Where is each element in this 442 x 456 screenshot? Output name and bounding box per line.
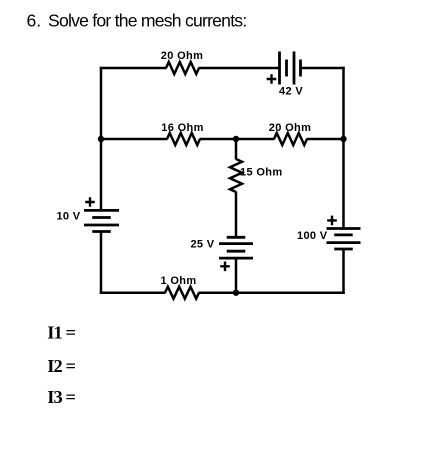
resistor 16 Ohm <box>167 133 200 145</box>
svg-text:25 V: 25 V <box>190 239 214 251</box>
wire center branch upper lead <box>235 139 238 160</box>
wire bottom-right horizontal <box>236 291 345 294</box>
node junction dot right-middle <box>340 136 346 142</box>
wire bottom-middle horizontal <box>199 291 237 294</box>
wire right rail middle <box>342 139 345 229</box>
svg-text:10 V: 10 V <box>56 211 80 223</box>
node junction dot center-middle <box>233 136 239 142</box>
node junction dot left-middle <box>98 136 104 142</box>
resistor 20 Ohm top <box>166 62 199 74</box>
wire middle-left horizontal <box>101 138 168 141</box>
plus sign of 10V battery <box>85 197 95 207</box>
node junction dot bottom <box>233 290 239 296</box>
battery V1 42V <box>280 52 301 85</box>
resistor 15 Ohm <box>230 159 242 192</box>
wire right rail lower <box>342 249 345 294</box>
wire center branch lower lead <box>235 258 238 293</box>
wire middle-right horizontal <box>307 138 344 141</box>
battery V2 10V <box>84 210 119 231</box>
battery V4 100V <box>327 229 361 250</box>
battery V3 25V <box>219 237 253 258</box>
plus sign of 42V battery <box>267 74 277 84</box>
svg-text:I1 =: I1 = <box>47 323 75 343</box>
wire top-right horizontal <box>301 67 345 70</box>
wire bottom-left horizontal <box>100 291 166 294</box>
svg-text:20 Ohm: 20 Ohm <box>269 122 311 134</box>
wire middle-center horizontal <box>200 138 275 141</box>
svg-text:I2 =: I2 = <box>47 356 75 376</box>
title text <box>27 11 247 31</box>
resistor 1 Ohm <box>165 287 199 299</box>
svg-text:1 Ohm: 1 Ohm <box>161 275 197 287</box>
svg-text:15 Ohm: 15 Ohm <box>240 167 282 179</box>
wire left rail upper <box>100 67 103 139</box>
wire top-left horizontal <box>100 67 167 70</box>
plus sign of 25V battery <box>220 262 230 272</box>
svg-text:16 Ohm: 16 Ohm <box>161 122 203 134</box>
wire left rail middle <box>100 139 103 210</box>
svg-text:Solve for the mesh currents:: Solve for the mesh currents: <box>48 11 246 31</box>
wire right rail upper <box>342 67 345 139</box>
svg-text:100 V: 100 V <box>297 230 328 242</box>
wire center branch middle lead <box>235 192 238 238</box>
svg-text:I3 =: I3 = <box>47 387 75 407</box>
wire top middle horizontal <box>199 67 280 70</box>
svg-text:6.: 6. <box>27 11 42 31</box>
svg-text:20 Ohm: 20 Ohm <box>161 50 203 62</box>
wire left rail lower <box>100 232 103 295</box>
plus sign of 100V battery <box>327 216 337 226</box>
resistor 20 Ohm middle <box>274 133 307 145</box>
svg-text:42 V: 42 V <box>279 86 303 98</box>
